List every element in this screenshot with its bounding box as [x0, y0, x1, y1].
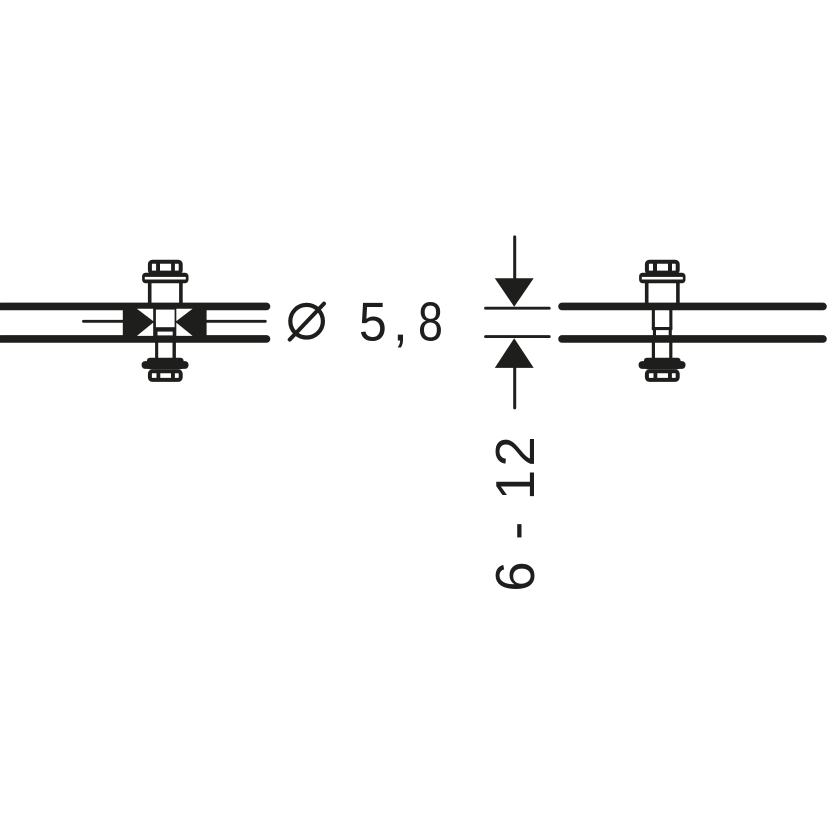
bolt B2 mid sleeve lower walls — [653, 330, 672, 342]
dimension arrowhead up — [495, 338, 534, 368]
nut N1 flange with ears — [142, 358, 189, 370]
bolt B2 washer flange — [639, 273, 685, 284]
bolt axis centerline right segment — [206, 320, 265, 323]
bolt B2 mid sleeve upper walls — [652, 306, 673, 329]
nut N1 hex skirt — [150, 371, 181, 380]
dimension lower vertical line — [513, 366, 516, 408]
extension line top — [486, 307, 550, 310]
diameter label circle — [290, 305, 323, 338]
bolt B1 hex head — [150, 262, 181, 273]
glass panel right top surface line — [562, 303, 823, 311]
bolt B2 hex head — [647, 262, 678, 273]
bolt B2 upper sleeve walls — [645, 283, 680, 304]
glass panel right bottom surface line — [562, 335, 823, 343]
dimension arrowhead down — [495, 278, 534, 307]
glass panel left top surface line — [1, 303, 267, 311]
bolt B2 threaded rod lower — [652, 341, 673, 359]
bolt B1 upper sleeve walls — [148, 283, 183, 304]
svg-text:8: 8 — [418, 291, 443, 352]
svg-text:6 - 12: 6 - 12 — [485, 436, 546, 592]
compression seal block — [123, 303, 207, 341]
svg-text:,: , — [393, 292, 408, 353]
diameter label slash — [290, 304, 324, 340]
bolt B2 sleeve step bar — [652, 327, 673, 330]
bolt axis centerline left segment — [84, 320, 125, 323]
glass panel left bottom surface line — [1, 335, 267, 343]
bolt B1 washer flange — [142, 273, 188, 284]
svg-text:5: 5 — [359, 293, 387, 353]
nut N2 hex skirt — [647, 371, 678, 380]
extension line bottom — [486, 335, 550, 338]
diameter value text 5,8 — [359, 291, 443, 353]
bolt B1 threaded rod lower — [155, 341, 176, 359]
nut N2 flange with ears — [639, 358, 686, 370]
dimension upper vertical line — [513, 237, 516, 279]
